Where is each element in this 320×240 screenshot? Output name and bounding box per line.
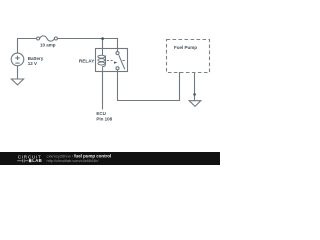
svg-text:Fuel Pump: Fuel Pump [174,45,197,50]
wire fuse to relay top node [57,38,117,40]
relay U1 box [96,49,128,72]
pin junction dot on fuel pump ground wire [193,93,196,96]
svg-text:LAB: LAB [32,158,42,163]
battery V1 [11,53,24,66]
ground GND2 (fuel pump) [189,101,201,107]
ground GND1 (battery) [11,79,23,85]
relay coil L1 [98,49,106,72]
footer bar [0,152,220,165]
wire battery top to fuse [18,39,37,54]
node A junction dot [101,37,104,40]
svg-text:Pin 108: Pin 108 [96,116,112,121]
fuel pump M1 dashed module box [167,40,210,73]
svg-text:RELAY: RELAY [79,59,95,64]
svg-text:ECU: ECU [96,111,106,116]
relay switch SW1 [116,52,125,70]
svg-text:http://circuitlab.com/c4z6844b: http://circuitlab.com/c4z6844b/ [47,159,100,163]
wire fuel pump pin 2 to ground [194,73,196,101]
svg-text:cxkmzy26hrw / fuel pump contro: cxkmzy26hrw / fuel pump control [47,153,112,158]
svg-text:10 amp: 10 amp [40,42,56,47]
CircuitLab logo [17,155,42,163]
wire battery bottom to ground [17,66,19,79]
wire down to relay switch pin [117,39,119,52]
svg-text:Battery: Battery [28,56,44,61]
wire node A to relay coil pin [102,39,104,50]
relay actuation dashed link with arrow [107,60,125,62]
svg-text:12 V: 12 V [28,61,37,66]
wire relay coil bottom to ECU node [102,72,104,109]
wire relay switch bottom to fuel pump pin 1 [118,70,180,101]
fuse F1 10 amp [37,36,58,41]
